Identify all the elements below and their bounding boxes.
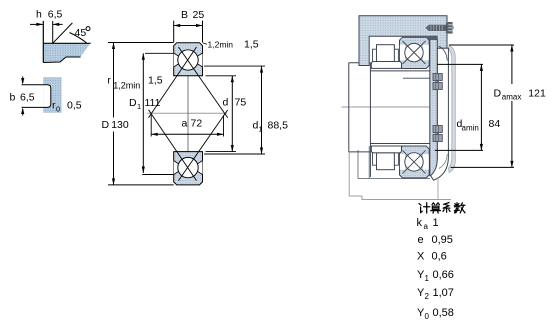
svg-text:D: D xyxy=(129,97,137,109)
svg-text:a: a xyxy=(424,222,429,231)
d dimension line xyxy=(231,76,233,152)
Damax dimension line xyxy=(511,45,513,84)
svg-text:6,5: 6,5 xyxy=(20,92,35,104)
d1 extension lines xyxy=(204,65,265,67)
bolt washer xyxy=(447,23,449,33)
table title (vector CJK strokes) xyxy=(419,203,465,214)
damin dimension line xyxy=(480,64,482,150)
gray centerline xyxy=(148,112,228,114)
Damax extension lines xyxy=(449,44,514,46)
h dimension line left xyxy=(30,23,43,25)
spacer brackets top xyxy=(373,49,377,61)
45 degree line xyxy=(53,23,73,43)
spacer box top xyxy=(377,45,395,62)
bolt shank xyxy=(429,25,447,31)
svg-text:0,66: 0,66 xyxy=(433,269,454,281)
outer+inner ring bottom section xyxy=(174,152,203,185)
svg-text:121: 121 xyxy=(528,88,546,100)
a extension lines xyxy=(150,115,152,137)
svg-text:B: B xyxy=(181,9,188,21)
damin extension lines xyxy=(437,63,483,65)
spacer band top xyxy=(371,62,401,69)
contact line diamond xyxy=(149,47,197,118)
svg-text:h: h xyxy=(36,9,42,21)
centerline right figure xyxy=(342,106,442,108)
top ball xyxy=(178,50,198,70)
svg-text:D: D xyxy=(102,119,110,131)
b arrow top xyxy=(22,77,24,84)
outer+inner ring top section xyxy=(174,43,203,76)
D extension lines xyxy=(108,42,174,44)
bolt head xyxy=(448,22,453,34)
svg-text:r: r xyxy=(107,75,111,87)
bottom bearing section xyxy=(400,146,430,178)
d extension lines xyxy=(206,75,237,77)
char ji xyxy=(419,204,421,206)
svg-text:0,95: 0,95 xyxy=(432,234,453,246)
top section side notches xyxy=(174,53,188,68)
svg-text:6,5: 6,5 xyxy=(48,9,63,21)
outer cover band xyxy=(449,46,456,173)
svg-text:111: 111 xyxy=(145,97,161,109)
groove section fill xyxy=(43,77,61,113)
groove profile outline xyxy=(22,85,51,108)
B extension lines xyxy=(173,21,175,43)
svg-text:0,58: 0,58 xyxy=(433,307,454,319)
groove cutout xyxy=(43,85,51,108)
flange outer band xyxy=(431,48,449,180)
svg-text:a: a xyxy=(182,118,188,130)
chamfer surface line xyxy=(43,42,90,44)
shaft land line xyxy=(403,77,445,79)
D1 dimension line xyxy=(142,53,144,173)
svg-text:1,5: 1,5 xyxy=(244,38,259,50)
housing bottom wall outline xyxy=(358,150,430,179)
svg-text:X: X xyxy=(417,251,425,263)
spacer brackets bottom xyxy=(373,153,377,165)
h extension line xyxy=(52,21,54,43)
D1 extension lines xyxy=(145,52,174,54)
svg-text:amax: amax xyxy=(502,93,522,102)
svg-text:1,2min: 1,2min xyxy=(113,81,140,91)
svg-text:25: 25 xyxy=(193,9,205,21)
svg-text:88,5: 88,5 xyxy=(268,120,289,132)
svg-text:0,6: 0,6 xyxy=(432,251,447,263)
housing bottom gray outline xyxy=(349,152,451,200)
flange fillet curve bottom xyxy=(439,154,448,169)
svg-text:1: 1 xyxy=(433,217,439,229)
shaft shoulder xyxy=(349,62,371,64)
svg-text:75: 75 xyxy=(235,97,247,109)
chamfer left edge xyxy=(42,21,44,63)
h dimension line right xyxy=(53,23,63,25)
1,2min top label xyxy=(203,43,208,45)
char xi xyxy=(444,203,449,205)
svg-text:0: 0 xyxy=(56,105,60,114)
svg-text:1: 1 xyxy=(425,274,430,283)
B dimension line xyxy=(174,25,203,27)
bottom section side notches xyxy=(174,160,188,175)
svg-text:2: 2 xyxy=(425,292,430,301)
flange hatched band xyxy=(430,39,438,175)
svg-text:45: 45 xyxy=(75,27,87,39)
bottom ball xyxy=(178,157,198,177)
char suan xyxy=(432,203,435,205)
svg-text:b: b xyxy=(10,92,16,104)
b arrow bottom xyxy=(22,109,24,116)
svg-text:1: 1 xyxy=(137,102,141,111)
svg-text:0: 0 xyxy=(425,312,430,321)
svg-text:130: 130 xyxy=(111,119,129,131)
svg-text:1,5: 1,5 xyxy=(148,75,163,87)
shaft seat xyxy=(370,70,433,72)
stud bottom xyxy=(433,126,442,133)
svg-text:84: 84 xyxy=(489,118,501,130)
svg-text:0,5: 0,5 xyxy=(67,100,82,112)
svg-text:e: e xyxy=(418,234,424,246)
D dimension line xyxy=(113,43,115,118)
svg-text:1,07: 1,07 xyxy=(433,287,454,299)
angle arc xyxy=(70,33,87,44)
svg-text:72: 72 xyxy=(191,118,203,130)
d1 dimension line xyxy=(261,66,263,154)
ball column centerline xyxy=(187,76,189,151)
svg-text:k: k xyxy=(417,217,423,229)
bolt cone tip xyxy=(425,25,428,31)
svg-text:1,2min: 1,2min xyxy=(208,40,234,50)
char shu xyxy=(454,205,460,207)
svg-text:amin: amin xyxy=(462,123,479,132)
flange fillet curve top xyxy=(439,46,448,61)
spacer box bottom xyxy=(377,153,395,170)
chamfer section fill xyxy=(44,44,90,63)
top bearing section xyxy=(400,37,430,68)
svg-text:d: d xyxy=(223,97,229,109)
svg-text:1: 1 xyxy=(259,125,263,134)
svg-text:D: D xyxy=(494,88,502,100)
a dimension line xyxy=(151,133,223,135)
housing xyxy=(359,16,447,66)
spacer band bottom xyxy=(371,146,401,153)
stud top xyxy=(433,74,442,81)
retainer strip xyxy=(427,37,437,40)
chamfer bottom profile xyxy=(43,57,80,63)
